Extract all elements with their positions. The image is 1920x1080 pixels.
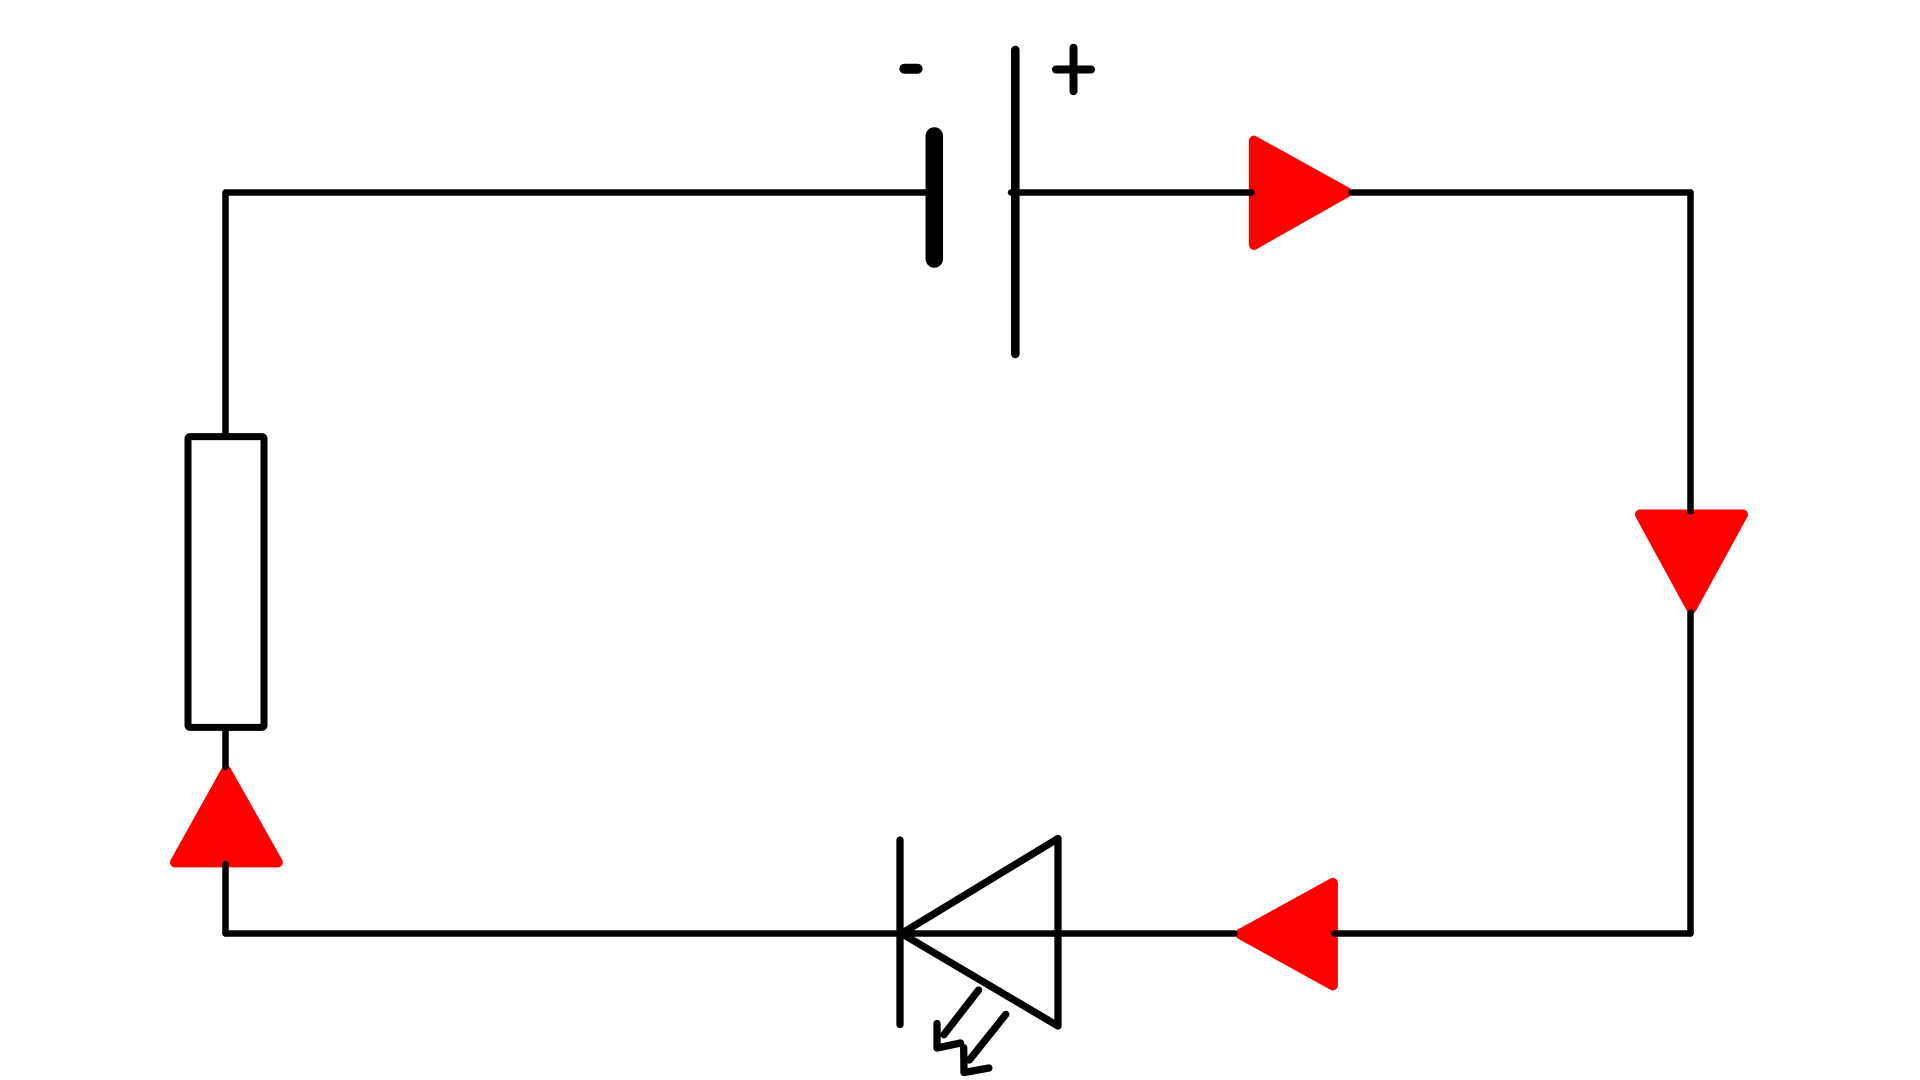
wire left side upper	[222, 193, 229, 768]
battery B1 positive plate	[1011, 50, 1020, 354]
battery minus label	[904, 64, 917, 74]
current arrow up (left)	[175, 771, 278, 863]
LED D1 light arrow 1	[937, 990, 979, 1048]
LED D1 triangle	[902, 839, 1059, 1027]
current arrow down (right)	[1640, 515, 1743, 609]
battery plus label	[1056, 48, 1091, 91]
LED D1 light arrow 2	[964, 1014, 1006, 1072]
wire right side lower	[1687, 613, 1694, 934]
wire bottom-right segment	[1335, 930, 1691, 937]
current arrow right (top)	[1254, 141, 1347, 245]
wire from battery positive to arrow	[1011, 189, 1252, 196]
LED D1 cathode bar	[896, 840, 903, 1025]
wire left side lower	[222, 864, 229, 934]
wire from arrow tip to LED	[901, 930, 1235, 937]
battery B1 negative plate	[926, 136, 944, 259]
wire from arrow to top-right corner	[1352, 189, 1691, 196]
wire top-left segment	[226, 189, 931, 196]
wire right side upper	[1687, 193, 1694, 512]
resistor R1	[188, 437, 264, 728]
wire from LED to bottom-left corner	[226, 930, 902, 937]
current arrow left (bottom)	[1240, 883, 1333, 986]
